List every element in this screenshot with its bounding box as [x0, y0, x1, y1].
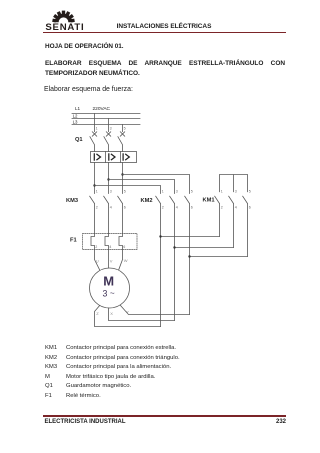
svg-text:5: 5: [191, 189, 193, 193]
svg-text:4: 4: [109, 245, 111, 249]
junction phase1: [93, 184, 95, 186]
wire Q1 pole1 down to KM3: [94, 163, 96, 194]
bus L3: [72, 124, 140, 126]
contactor KM3 pole 1: [90, 196, 95, 233]
wire Q1 pole3 down to KM3: [122, 163, 124, 194]
svg-text:3: 3: [176, 189, 178, 193]
svg-text:3: 3: [235, 189, 237, 193]
F1 heater pole 3: [119, 234, 123, 250]
wire L3 to Q1 pole3: [122, 125, 124, 132]
svg-text:220VAC: 220VAC: [93, 106, 111, 112]
contactor KM2 pole 2: [170, 196, 175, 320]
svg-text:3: 3: [110, 189, 112, 193]
F1 heater pole 2: [105, 234, 109, 250]
contactor KM1 pole 1: [215, 196, 220, 236]
svg-text:KM2: KM2: [141, 198, 153, 204]
svg-text:6: 6: [123, 245, 125, 249]
contactor KM1 pole 3: [243, 196, 248, 256]
header rule: [43, 32, 286, 34]
svg-text:1: 1: [221, 189, 223, 193]
svg-text:6: 6: [124, 206, 126, 210]
wire F1 to motor terminal U: [95, 250, 101, 271]
F1 heater pole 1: [91, 234, 95, 250]
svg-text:4: 4: [176, 206, 178, 210]
header title: [100, 23, 228, 30]
wire F1 to motor terminal V: [108, 250, 110, 269]
contactor KM1 pole 2: [229, 196, 234, 247]
wire motor Y to KM2 pole3: [120, 305, 189, 314]
svg-text:Y: Y: [126, 310, 129, 315]
junction phase2: [107, 178, 109, 180]
I> symbol pole1: [94, 154, 100, 160]
I> symbol pole3: [123, 154, 129, 160]
wire KM1 pole2 to KM2 pole2: [175, 247, 234, 249]
contactor KM3 pole 2: [104, 196, 109, 233]
contactor KM2 pole 1: [156, 196, 161, 326]
svg-text:KM1: KM1: [203, 198, 215, 204]
wire motor Z to KM2 pole1: [95, 306, 161, 327]
svg-text:X: X: [110, 311, 113, 316]
junction KM2 pole2: [173, 246, 175, 248]
svg-text:5: 5: [249, 189, 251, 193]
svg-text:2: 2: [221, 206, 223, 210]
wire KM1 pole1 to KM2 pole1: [161, 236, 220, 238]
svg-text:4: 4: [110, 206, 112, 210]
svg-text:6: 6: [249, 206, 251, 210]
svg-text:L2: L2: [73, 114, 78, 119]
overcurrent release box Q1: [91, 152, 137, 163]
svg-text:1: 1: [96, 189, 98, 193]
contactor KM2 pole 3: [185, 196, 190, 314]
wire L1 to Q1 pole1: [94, 114, 96, 132]
breaker Q1 pole 1: [90, 132, 97, 152]
junction KM2 pole3: [188, 255, 190, 257]
svg-text:V: V: [110, 259, 113, 264]
wire Q1 pole2 down to KM3: [108, 163, 110, 194]
svg-text:F1: F1: [70, 238, 77, 244]
wire KM1 pole3 to KM2 pole3: [190, 256, 248, 258]
svg-text:5: 5: [124, 189, 126, 193]
wire phase2 to KM2 pole2: [109, 180, 175, 194]
junction phase3: [121, 173, 123, 175]
star bridge bar KM1: [220, 175, 248, 192]
breaker Q1 pole 3: [118, 132, 125, 152]
SENATI logo: [44, 8, 90, 32]
svg-text:M: M: [103, 273, 114, 288]
wire L2 to Q1 pole2: [108, 119, 110, 132]
svg-text:4: 4: [235, 206, 237, 210]
svg-text:W: W: [124, 258, 128, 263]
svg-text:3 ~: 3 ~: [103, 289, 115, 299]
bus L1: [72, 113, 140, 115]
svg-text:L3: L3: [73, 120, 78, 125]
svg-text:2: 2: [95, 245, 97, 249]
wire motor X to KM2 pole2: [109, 308, 175, 321]
wire phase3 to KM2 pole3: [123, 175, 190, 194]
wire F1 to motor terminal W: [119, 250, 123, 271]
motor M circle: [90, 268, 130, 308]
svg-text:5: 5: [124, 127, 126, 131]
svg-text:U: U: [96, 259, 99, 264]
svg-text:Q1: Q1: [75, 137, 83, 143]
junction KM2 pole1: [159, 235, 161, 237]
svg-text:Z: Z: [96, 311, 99, 316]
svg-text:2: 2: [96, 206, 98, 210]
svg-text:6: 6: [191, 206, 193, 210]
svg-text:1: 1: [162, 189, 164, 193]
svg-text:KM3: KM3: [66, 198, 78, 204]
svg-text:2: 2: [162, 206, 164, 210]
contactor KM3 pole 3: [118, 196, 123, 233]
breaker Q1 pole 2: [104, 132, 111, 152]
svg-text:1: 1: [96, 127, 98, 131]
I> symbol pole2: [109, 154, 115, 160]
thermal relay F1 box: [83, 234, 138, 250]
bus L2: [72, 118, 140, 120]
svg-text:3: 3: [110, 127, 112, 131]
wire phase1 to KM2 pole1: [95, 186, 161, 194]
svg-text:L1: L1: [75, 106, 81, 111]
